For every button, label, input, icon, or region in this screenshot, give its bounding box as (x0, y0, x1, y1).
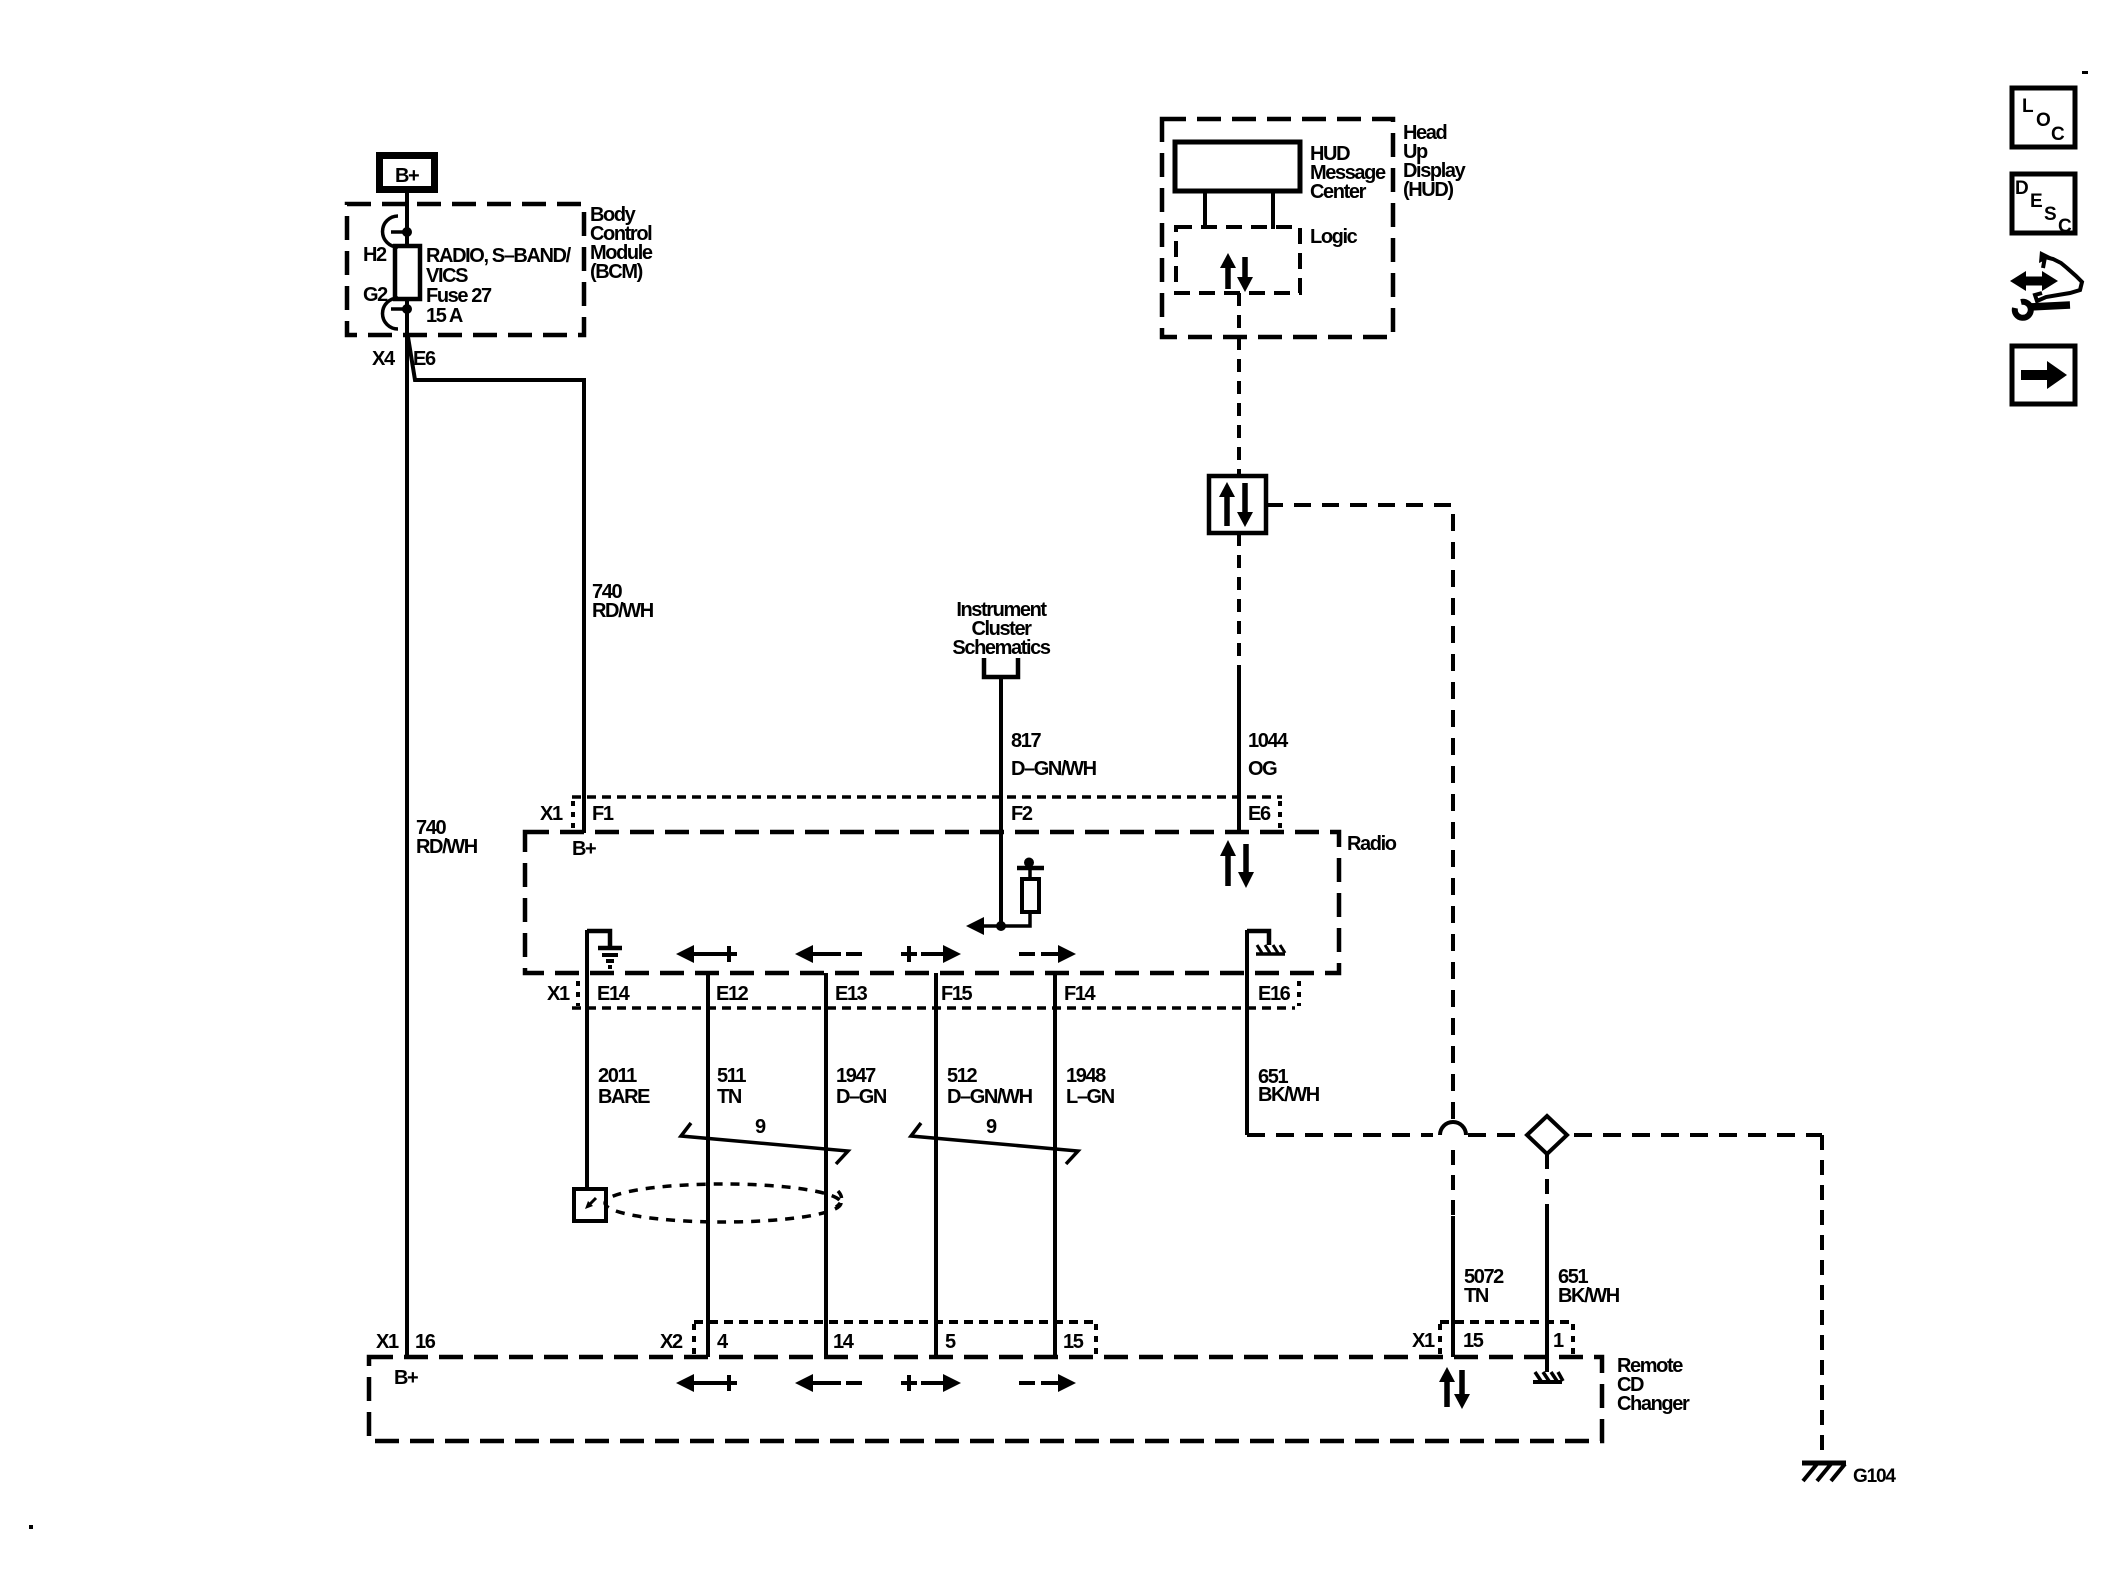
CD changer connector X2 strip (660, 1322, 1096, 1356)
svg-text:BARE: BARE (598, 1086, 650, 1108)
svg-text:E12: E12 (716, 983, 749, 1005)
svg-text:E6: E6 (413, 348, 436, 370)
svg-text:Radio: Radio (1347, 833, 1397, 855)
svg-text:E: E (2030, 191, 2042, 212)
Remote CD Changer dashed box (369, 1355, 1690, 1441)
speck bottom left (29, 1525, 33, 1529)
svg-text:15: 15 (1463, 1330, 1484, 1352)
svg-text:E13: E13 (835, 983, 868, 1005)
wire B+ to fuse (405, 193, 409, 246)
svg-text:9: 9 (986, 1116, 997, 1138)
svg-text:F15: F15 (941, 983, 973, 1005)
svg-text:X1: X1 (547, 983, 570, 1005)
svg-text:RD/WH: RD/WH (592, 600, 654, 622)
wire 651 BK/WH to CD changer (1547, 1154, 1620, 1372)
pin F2 (1011, 803, 1033, 825)
svg-text:BK/WH: BK/WH (1258, 1084, 1320, 1106)
radio E14 signal ground symbol (587, 931, 622, 967)
svg-text:E6: E6 (1248, 803, 1271, 825)
svg-text:5: 5 (945, 1331, 956, 1353)
HUD Message Center display box (1175, 142, 1386, 203)
Head Up Display (HUD) dashed box (1162, 119, 1467, 337)
wire 817 D-GN/WH cluster to radio F2 (1001, 677, 1097, 926)
svg-text:Fuse 27: Fuse 27 (426, 285, 492, 307)
svg-text:S: S (2044, 204, 2056, 225)
fuse F27 RADIO S-BAND/VICS 15A (395, 245, 572, 327)
CD serial data arrows below pin 15 (1439, 1367, 1470, 1409)
svg-text:BK/WH: BK/WH (1558, 1285, 1620, 1307)
pin F15 (941, 983, 973, 1005)
node B+ radio (572, 838, 596, 860)
crossover hop at 5072 (1440, 1122, 1466, 1135)
svg-text:TN: TN (1464, 1285, 1489, 1307)
svg-text:OG: OG (1248, 758, 1277, 780)
svg-text:D–GN/WH: D–GN/WH (947, 1086, 1033, 1108)
power symbol B+ (380, 156, 435, 190)
shield drain termination box (574, 1189, 606, 1221)
wire branch 740 RD/WH to radio B+ (408, 337, 654, 833)
svg-text:RADIO, S–BAND/: RADIO, S–BAND/ (426, 245, 572, 267)
radio speaker output arrow F14 right minus (1019, 945, 1076, 963)
connector clip H2 (363, 216, 412, 266)
pin E6 (1248, 803, 1271, 825)
svg-text:15: 15 (1063, 1331, 1084, 1353)
svg-text:C: C (2051, 124, 2065, 145)
svg-text:Logic: Logic (1310, 226, 1358, 248)
wire fuse to BCM pin X4 E6 (405, 299, 409, 360)
dashed serial data wire interface to 5072 run (1266, 505, 1453, 1216)
svg-text:L: L (2022, 96, 2034, 117)
pin E14 (597, 983, 631, 1005)
radio E16 chassis ground symbol (1247, 931, 1285, 954)
svg-text:(BCM): (BCM) (590, 261, 643, 283)
svg-text:1: 1 (1553, 1330, 1564, 1352)
svg-text:E14: E14 (597, 983, 631, 1005)
speck top right (2082, 71, 2088, 74)
splice diamond S1 (1527, 1116, 1567, 1154)
svg-text:Changer: Changer (1617, 1393, 1690, 1415)
twisted pair symbol 512/1948 cavity 9 (911, 1116, 1078, 1164)
svg-text:F2: F2 (1011, 803, 1033, 825)
radio speaker output arrow E13 left minus (795, 945, 862, 963)
svg-text:O: O (2036, 110, 2050, 131)
radio E6 serial data arrows (1220, 840, 1254, 888)
svg-text:X4: X4 (372, 348, 396, 370)
pin 14 (833, 1331, 855, 1353)
svg-text:14: 14 (833, 1331, 855, 1353)
CD changer connector X1 pin 16 (376, 1331, 436, 1353)
CD speaker input arrow pin14 left minus (795, 1374, 862, 1392)
pin label E6 (413, 348, 436, 370)
pin 15 X2 (1063, 1331, 1084, 1353)
radio F2 internal arrow junction (966, 917, 1006, 935)
svg-text:15 A: 15 A (426, 305, 463, 327)
svg-text:B+: B+ (395, 165, 419, 187)
svg-text:RD/WH: RD/WH (416, 836, 478, 858)
svg-text:1948: 1948 (1066, 1065, 1106, 1087)
DESC navigation icon (2012, 174, 2075, 237)
connector clip G2 (363, 284, 412, 329)
pin E13 (835, 983, 868, 1005)
svg-text:Schematics: Schematics (952, 637, 1050, 659)
CD chassis ground symbol below pin 1 (1533, 1372, 1563, 1382)
svg-text:D: D (2015, 178, 2028, 199)
svg-text:TN: TN (717, 1086, 742, 1108)
serial data arrows in Logic box (1220, 253, 1253, 292)
wire 651 BK/WH radio ground run (1247, 930, 1320, 1135)
pin F1 (592, 803, 614, 825)
pin 15 X1 (1463, 1330, 1484, 1352)
wire 511 TN (708, 973, 746, 1357)
svg-text:512: 512 (947, 1065, 977, 1087)
svg-text:F1: F1 (592, 803, 614, 825)
radio speaker output arrow F15 right plus (901, 945, 961, 963)
dashed ground net 651 horizontal run (1247, 1133, 1822, 1137)
wire 2011 BARE drain (587, 930, 650, 1189)
radio speaker output arrow E12 left plus (676, 945, 737, 963)
svg-text:H2: H2 (363, 244, 387, 266)
svg-text:511: 511 (717, 1065, 746, 1087)
dashed ground net to G104 (1820, 1135, 1824, 1460)
svg-text:9: 9 (755, 1116, 766, 1138)
pin 1 (1553, 1330, 1564, 1352)
LOC navigation icon (2012, 88, 2075, 147)
svg-text:D–GN: D–GN (836, 1086, 887, 1108)
svg-text:817: 817 (1011, 730, 1041, 752)
CD speaker input arrow pin5 right plus (901, 1374, 961, 1392)
svg-text:X2: X2 (660, 1331, 683, 1353)
wire HMC leg left (1203, 191, 1207, 229)
wire HMC leg right (1271, 191, 1275, 229)
pin F14 (1064, 983, 1097, 1005)
Body Control Module (BCM) dashed box (347, 204, 653, 335)
svg-text:Center: Center (1310, 181, 1367, 203)
CD speaker input arrow pin15 right minus (1019, 1374, 1076, 1392)
svg-text:(HUD): (HUD) (1403, 179, 1453, 201)
pin label X4 (372, 348, 396, 370)
radio internal resistor R1 (1001, 858, 1044, 927)
wire 1947 D-GN (826, 973, 887, 1357)
pin E12 (716, 983, 749, 1005)
svg-text:B+: B+ (394, 1367, 418, 1389)
radio connector X1 bottom strip (547, 981, 1299, 1008)
serial data interface box U1 (1209, 476, 1266, 533)
pin E16 (1258, 983, 1291, 1005)
wire 512 D-GN/WH (936, 973, 1033, 1357)
svg-text:X1: X1 (540, 803, 563, 825)
ground G104 (1802, 1463, 1896, 1487)
diagnostic arrows and wrench icon (2010, 251, 2082, 318)
svg-text:D–GN/WH: D–GN/WH (1011, 758, 1097, 780)
svg-text:16: 16 (415, 1331, 436, 1353)
wire 1948 L-GN (1055, 973, 1115, 1357)
Instrument Cluster Schematics off-page reference (952, 599, 1050, 677)
pin 4 (717, 1331, 729, 1353)
wire 740 RD/WH left run to CD changer (407, 355, 478, 1357)
wire 5072 TN (1453, 1216, 1504, 1357)
svg-text:L–GN: L–GN (1066, 1086, 1115, 1108)
svg-text:E16: E16 (1258, 983, 1291, 1005)
svg-text:G104: G104 (1853, 1466, 1896, 1487)
svg-text:C: C (2058, 216, 2072, 237)
CD changer connector X1 right strip (1412, 1322, 1573, 1356)
svg-text:1044: 1044 (1248, 730, 1289, 752)
wire 1044 OG interface to radio E6 (1239, 533, 1289, 833)
svg-text:B+: B+ (572, 838, 596, 860)
forward arrow navigation icon (2012, 346, 2075, 404)
svg-text:X1: X1 (1412, 1330, 1435, 1352)
pin 5 (945, 1331, 956, 1353)
node B+ CD changer (394, 1367, 418, 1389)
svg-text:G2: G2 (363, 284, 388, 306)
svg-text:2011: 2011 (598, 1065, 637, 1087)
svg-text:F14: F14 (1064, 983, 1097, 1005)
radio connector X1 top strip (540, 797, 1282, 828)
twisted pair symbol 511/1947 cavity 9 (681, 1116, 848, 1164)
svg-text:VICS: VICS (426, 265, 468, 287)
shield ellipse around twisted pair (605, 1184, 842, 1222)
dashed serial data wire HUD to interface (1237, 293, 1241, 476)
Logic dashed box (1176, 226, 1358, 293)
Radio dashed box (525, 832, 1397, 973)
svg-text:X1: X1 (376, 1331, 399, 1353)
CD speaker input arrow pin4 left plus (676, 1374, 737, 1392)
svg-text:1947: 1947 (836, 1065, 876, 1087)
